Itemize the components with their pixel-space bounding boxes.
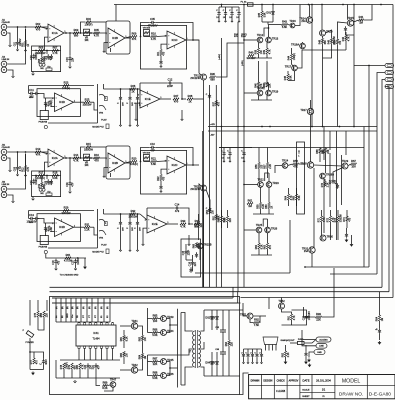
wire (267, 219, 269, 227)
wire (211, 352, 213, 359)
svg-text:4.7K: 4.7K (180, 224, 186, 228)
transistor TR14 (299, 16, 312, 23)
wire (75, 298, 77, 322)
svg-text:5.6K: 5.6K (282, 25, 288, 29)
transistor TR23 (266, 181, 279, 187)
svg-text:2SC2240: 2SC2240 (190, 78, 200, 80)
svg-text:R90: R90 (226, 341, 228, 346)
ground (69, 66, 72, 69)
wire (140, 82, 167, 84)
wire (137, 226, 139, 249)
wire (345, 32, 347, 36)
svg-text:330/2W: 330/2W (247, 56, 256, 60)
junction (243, 39, 245, 41)
section box (32, 46, 61, 72)
svg-text:TR16: TR16 (289, 19, 296, 23)
svg-text:10U/16V: 10U/16V (36, 175, 38, 184)
svg-text:TL494: TL494 (92, 338, 100, 341)
junction (69, 157, 71, 159)
IC IC41 TL494 (76, 325, 116, 346)
wire (216, 322, 218, 330)
wire (52, 297, 233, 299)
svg-text:C11: C11 (29, 88, 34, 92)
wire (267, 169, 269, 179)
svg-text:47K: 47K (219, 102, 221, 107)
resistor R79 (69, 363, 76, 369)
svg-text:TR31: TR31 (302, 246, 309, 250)
svg-text:400V: 400V (46, 359, 48, 365)
wire (78, 321, 80, 324)
wire (199, 223, 200, 225)
wire (45, 106, 47, 111)
capacitor (224, 11, 227, 17)
svg-text:EQ: EQ (48, 66, 51, 68)
wire (17, 27, 19, 41)
wire (227, 210, 229, 216)
svg-text:22K: 22K (153, 362, 158, 366)
resistor R76 (41, 311, 48, 317)
regulator section (240, 298, 316, 368)
bias network channel B (181, 239, 201, 277)
channel A preamp (1, 17, 199, 77)
capacitor C06 (15, 165, 22, 171)
wire (181, 367, 193, 385)
svg-text:IC1E: IC1E (145, 97, 151, 101)
wire (330, 273, 377, 275)
wire (310, 115, 312, 162)
wire (60, 359, 120, 361)
wire (266, 54, 268, 58)
wire (244, 229, 256, 231)
svg-text:R30: R30 (46, 227, 48, 232)
resistor R93 (316, 312, 322, 321)
wire (346, 221, 348, 228)
svg-text:m: m (323, 395, 325, 398)
wire (90, 101, 94, 103)
wire (258, 169, 260, 182)
wire (251, 99, 272, 101)
wire (158, 332, 161, 334)
wire (161, 44, 167, 49)
wire (51, 106, 55, 108)
wire (363, 127, 365, 268)
junction (80, 32, 82, 34)
wire (52, 302, 238, 304)
svg-text:C15: C15 (183, 250, 185, 255)
svg-text:(B): (B) (67, 306, 69, 309)
wire (198, 227, 200, 240)
wire (253, 316, 260, 323)
ground (16, 49, 18, 51)
svg-text:SCALE: SCALE (302, 388, 310, 391)
resistor R57 (265, 163, 272, 169)
wire (106, 321, 108, 324)
wire (32, 196, 33, 199)
svg-text:1M: 1M (145, 356, 147, 359)
resistor R89 (102, 381, 108, 390)
chassis ground (350, 243, 354, 247)
junction (17, 151, 19, 153)
svg-text:(B): (B) (56, 306, 58, 309)
resistor R78 (61, 362, 68, 369)
ground (24, 174, 26, 176)
svg-text:100: 100 (351, 164, 356, 168)
svg-text:MODEL: MODEL (342, 378, 361, 384)
chassis ground (307, 359, 311, 363)
junction (380, 4, 382, 6)
capacitor C15 (183, 249, 190, 255)
svg-text:R62: R62 (256, 244, 258, 249)
wire (125, 37, 131, 39)
transistor TR25 (256, 223, 263, 233)
resistor R70 (322, 182, 329, 188)
capacitor C16 (190, 260, 197, 266)
svg-text:473: 473 (175, 209, 180, 213)
wire (261, 17, 263, 22)
svg-text:R60: R60 (266, 204, 268, 209)
junction (57, 50, 59, 52)
resistor R12 (23, 166, 30, 172)
junction (272, 4, 274, 6)
resistor R80 (77, 363, 84, 369)
capacitor (119, 95, 122, 101)
wire (44, 173, 46, 176)
svg-text:1K: 1K (271, 205, 273, 208)
svg-text:4.7K: 4.7K (151, 37, 157, 41)
svg-text:5.6K: 5.6K (290, 75, 292, 80)
resistor R65 (294, 194, 301, 200)
svg-text:R07: R07 (53, 46, 58, 50)
wire (123, 330, 125, 335)
switch SW11 (40, 110, 48, 119)
op-amp IC1C (165, 31, 189, 49)
wire (266, 61, 268, 82)
wire (346, 210, 348, 216)
resistor R50 (335, 39, 342, 45)
resistor R60 (266, 203, 273, 209)
wire (45, 162, 49, 172)
svg-text:TR21: TR21 (194, 184, 201, 188)
wire (204, 309, 243, 311)
resistor R69 (323, 148, 330, 154)
wire (222, 332, 224, 352)
resistor R88 (152, 371, 158, 380)
svg-text:47K: 47K (132, 37, 137, 41)
resistor R61 (247, 199, 253, 208)
section box (37, 89, 80, 117)
wire (325, 147, 327, 150)
wire (193, 98, 204, 100)
wire (227, 222, 229, 228)
wire (197, 184, 202, 224)
resistor R04 (85, 17, 93, 26)
wire (252, 358, 254, 362)
ground (251, 362, 253, 364)
wire (43, 364, 45, 369)
wire (206, 190, 210, 209)
junction (322, 126, 324, 128)
wire (29, 355, 31, 370)
wire (282, 320, 292, 325)
wire (285, 345, 287, 351)
svg-text:LINE: LINE (319, 346, 324, 348)
chassis ground (83, 266, 87, 270)
wire (123, 357, 125, 364)
svg-text:IC2A: IC2A (52, 156, 58, 160)
svg-text:TR21B: TR21B (203, 242, 211, 246)
svg-text:4.7K: 4.7K (269, 49, 271, 54)
svg-text:680: 680 (210, 77, 215, 81)
wire (181, 313, 193, 332)
ground (238, 20, 240, 22)
resistor R22 (158, 175, 165, 181)
wire (337, 222, 339, 240)
wire (129, 214, 131, 220)
transistor TR43 (161, 315, 175, 322)
wire (329, 131, 331, 150)
capacitor C07 (31, 175, 38, 184)
svg-text:10K(F): 10K(F) (294, 53, 296, 60)
wire (34, 352, 44, 359)
junction (129, 88, 131, 90)
capacitor (50, 54, 53, 60)
wire (385, 87, 389, 292)
capacitor (230, 11, 233, 17)
resistor R71 (319, 216, 326, 222)
svg-text:GA80(AC)OUT: GA80(AC)OUT (281, 339, 296, 342)
wire (221, 222, 223, 228)
svg-text:R20: R20 (132, 157, 137, 161)
wire (379, 292, 381, 315)
wire (267, 148, 269, 163)
transistor TR15 (347, 16, 354, 26)
wire (268, 83, 270, 90)
wire (228, 346, 230, 376)
wire (379, 334, 381, 340)
section box (141, 151, 187, 195)
svg-text:PHJB NB: PHJB NB (39, 246, 48, 248)
resistor R13 (35, 147, 41, 156)
wire (140, 214, 147, 220)
resistor R06 (37, 46, 46, 55)
wire (337, 210, 339, 216)
svg-text:10K: 10K (84, 40, 89, 42)
jack J21 (1, 149, 7, 160)
svg-text:R45: R45 (285, 75, 287, 80)
svg-text:TR42: TR42 (131, 363, 138, 367)
svg-text:IC1A: IC1A (52, 31, 58, 35)
svg-text:R54: R54 (219, 217, 221, 222)
wire (216, 310, 218, 314)
resistor R72 (328, 216, 335, 222)
wire (265, 345, 267, 351)
wire (258, 233, 260, 243)
junction (25, 26, 27, 28)
ground (142, 243, 145, 245)
svg-text:R31: R31 (85, 222, 90, 226)
svg-text:MODE PHJ: MODE PHJ (92, 127, 103, 129)
wire (238, 16, 240, 20)
capacitor C18 (53, 259, 60, 265)
svg-text:VR 500: VR 500 (143, 153, 151, 155)
resistor R45 (285, 74, 292, 80)
svg-text:R52: R52 (207, 209, 209, 214)
jack J12 (1, 61, 7, 72)
svg-text:TR29: TR29 (342, 159, 349, 163)
wire (41, 51, 43, 58)
resistor R29 (62, 206, 71, 215)
wire (30, 369, 44, 371)
resistor R84 (140, 354, 147, 360)
wire (330, 210, 332, 216)
wire (148, 349, 193, 355)
svg-text:Vcc: Vcc (72, 315, 74, 318)
wire (108, 384, 111, 387)
wire (182, 98, 186, 100)
svg-text:1K: 1K (131, 89, 134, 93)
resistor R49 (329, 35, 336, 44)
wire (314, 165, 342, 166)
svg-text:4.7K: 4.7K (294, 315, 296, 320)
ground (32, 198, 35, 201)
svg-text:680: 680 (74, 33, 79, 37)
transistor TR24 (282, 159, 289, 169)
wire (87, 369, 89, 378)
svg-text:1M: 1M (382, 318, 384, 321)
resistor R31 (84, 222, 90, 231)
svg-text:470: 470 (36, 27, 41, 31)
svg-text:TR22: TR22 (257, 178, 264, 182)
wire (264, 28, 269, 37)
wire (120, 226, 122, 249)
transformer T1 (190, 330, 201, 368)
wire (309, 352, 314, 358)
wire (348, 164, 351, 166)
svg-text:47P: 47P (72, 182, 74, 187)
jack J11 (1, 24, 7, 35)
wire (256, 349, 258, 352)
trimmer VR12 (143, 30, 149, 36)
wire (203, 191, 205, 287)
wire (272, 17, 274, 22)
wire (125, 37, 131, 39)
transistor TR12 (257, 33, 264, 43)
wire (240, 373, 249, 395)
svg-text:IC41: IC41 (93, 332, 99, 335)
capacitor (217, 11, 220, 17)
svg-text:26.JUL.2004: 26.JUL.2004 (316, 378, 331, 382)
ground (24, 49, 26, 51)
capacitor (208, 93, 211, 99)
svg-text:(B): (B) (77, 306, 79, 309)
svg-text:R55: R55 (225, 217, 227, 222)
resistor R85 (153, 314, 158, 323)
svg-text:DESIGN: DESIGN (263, 380, 272, 382)
svg-text:TR26: TR26 (271, 226, 278, 230)
ground (16, 174, 18, 176)
resistor R67 (351, 159, 357, 168)
wire (48, 122, 98, 124)
svg-text:R11: R11 (158, 51, 160, 56)
wire (211, 367, 213, 376)
svg-text:R01: R01 (23, 42, 25, 47)
junction (339, 126, 341, 128)
wire (305, 345, 307, 351)
svg-text:R14: R14 (74, 153, 79, 157)
wire (147, 207, 174, 209)
svg-text:R59: R59 (258, 204, 260, 209)
trimmer VR21 (39, 188, 42, 191)
svg-text:IC1C: IC1C (172, 38, 178, 42)
capacitor (208, 207, 211, 213)
wire (115, 5, 117, 22)
svg-text:R12: R12 (23, 167, 25, 172)
wire (266, 43, 268, 48)
svg-text:TR12: TR12 (257, 33, 264, 37)
wire (103, 298, 105, 322)
wire (95, 321, 97, 324)
svg-text:R53: R53 (196, 222, 198, 227)
ground (129, 249, 131, 251)
wire (299, 163, 306, 165)
svg-text:R57: R57 (265, 164, 267, 169)
wire (17, 171, 19, 174)
wire (305, 357, 307, 361)
svg-text:C05: C05 (150, 17, 155, 21)
resistor R39 (264, 48, 271, 54)
resistor R92 (283, 351, 290, 357)
resistor R07 (52, 46, 58, 55)
wire (180, 208, 189, 224)
svg-text:1U/50V: 1U/50V (78, 257, 80, 265)
svg-text:47K: 47K (270, 245, 272, 250)
svg-text:C12: C12 (168, 78, 173, 82)
wire (229, 156, 231, 160)
op-amp IC2B (106, 153, 128, 173)
trimmer VR21 (84, 154, 90, 160)
resistor R18 (52, 171, 58, 180)
capacitor C (41, 359, 48, 365)
ground (231, 20, 233, 22)
capacitor C22 (304, 311, 311, 320)
chassis ground (345, 239, 349, 243)
wire (104, 213, 141, 215)
svg-text:MODE PHJ: MODE PHJ (92, 252, 103, 254)
svg-text:22K: 22K (46, 313, 48, 318)
wire (243, 156, 245, 160)
wire (251, 254, 272, 256)
wire (17, 152, 19, 166)
wire (56, 377, 120, 379)
connector pad SP2 (385, 71, 394, 75)
wire (55, 360, 57, 378)
channel B preamp (1, 142, 199, 202)
svg-text:CD/AUX: CD/AUX (2, 146, 11, 149)
wire (346, 228, 348, 232)
svg-text:TR15: TR15 (347, 16, 354, 20)
svg-text:8.2K: 8.2K (263, 204, 265, 209)
svg-text:R82: R82 (121, 352, 123, 357)
resistor R01 (23, 41, 30, 47)
wire (268, 298, 270, 310)
svg-text:100: 100 (153, 319, 158, 323)
wire (330, 222, 332, 240)
wire (243, 303, 247, 316)
wire (167, 319, 171, 333)
wire (51, 231, 55, 233)
wire (336, 131, 338, 162)
wire (65, 298, 67, 322)
